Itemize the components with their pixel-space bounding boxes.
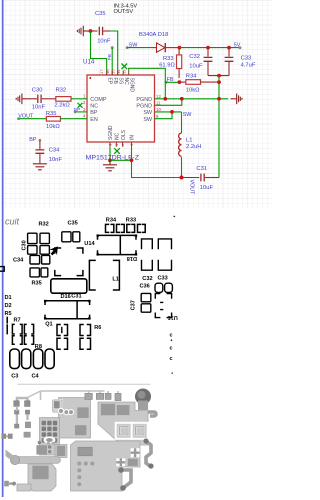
svg-text:EN: EN bbox=[90, 117, 98, 123]
svg-text:10uF: 10uF bbox=[189, 64, 203, 70]
junction C32 top bbox=[206, 46, 210, 50]
wire FB to R34 bbox=[166, 81, 179, 83]
resistor R32 bbox=[56, 97, 71, 102]
copper left edge diagonal trace bbox=[6, 450, 15, 463]
svg-text:C3: C3 bbox=[11, 373, 18, 379]
svg-text:OLS: OLS bbox=[121, 129, 127, 140]
svg-text:C32: C32 bbox=[189, 54, 200, 60]
svg-text:COMP: COMP bbox=[90, 97, 107, 103]
ground at C34 bbox=[33, 164, 47, 170]
wire 5V rail bbox=[179, 47, 240, 49]
capacitor C35 bbox=[91, 27, 111, 35]
schematic sheet background bbox=[4, 0, 273, 208]
wire SGND pin13 to PGND rail bbox=[129, 68, 166, 99]
footprint C30 pads bbox=[28, 233, 37, 254]
top pin names EP FB SS NC SGND bbox=[106, 78, 134, 93]
no-ERC top NC pin bbox=[122, 64, 128, 70]
footprint D18 bbox=[98, 235, 137, 254]
svg-text:NC: NC bbox=[90, 104, 98, 110]
copper pour bottom-center bbox=[71, 441, 141, 491]
footprint C35 pads bbox=[62, 232, 80, 242]
svg-text:L1: L1 bbox=[186, 137, 192, 143]
svg-text:12: 12 bbox=[156, 94, 161, 99]
svg-text:PGND: PGND bbox=[136, 104, 152, 110]
footprint R35 pads bbox=[30, 268, 48, 277]
wire SW to diode D18 bbox=[127, 47, 152, 49]
copper bottom curl trace bbox=[121, 470, 131, 488]
svg-text:Q1: Q1 bbox=[45, 321, 52, 327]
copper oval cutout bbox=[43, 436, 55, 443]
svg-text:c: c bbox=[170, 346, 173, 352]
svg-text:15: 15 bbox=[110, 69, 115, 73]
svg-text:16: 16 bbox=[105, 69, 110, 73]
copper right edge curve trace bbox=[148, 412, 156, 416]
ground (power) at C35 input bbox=[77, 26, 89, 37]
resistor R33 bbox=[178, 48, 180, 55]
junction SW bbox=[170, 110, 174, 114]
svg-text:SW: SW bbox=[143, 117, 153, 123]
svg-text:D16: D16 bbox=[61, 294, 71, 300]
svg-text:11: 11 bbox=[156, 100, 161, 105]
svg-text:NC: NC bbox=[123, 78, 129, 86]
svg-text:2.2uH: 2.2uH bbox=[186, 144, 201, 150]
copper features on bottom pour bbox=[78, 447, 92, 456]
copper big central pour bbox=[98, 402, 148, 445]
svg-text:10: 10 bbox=[156, 107, 161, 112]
copper pour IC region bbox=[40, 418, 60, 456]
no-ERC pin2 bbox=[78, 103, 83, 108]
capacitor C31 bbox=[182, 174, 220, 182]
copper pour column left-center bbox=[59, 398, 91, 439]
power node 5V bbox=[239, 46, 242, 49]
node SW (top) bbox=[126, 46, 129, 49]
ground below U14 bbox=[103, 160, 117, 171]
svg-text:R34: R34 bbox=[186, 74, 197, 80]
svg-text:R35: R35 bbox=[46, 111, 57, 117]
footprint C32 pads bbox=[142, 239, 153, 270]
junction PGND x165 bbox=[163, 97, 167, 101]
svg-text:13: 13 bbox=[121, 69, 126, 73]
bottom pin names SGND NC OLS IN bbox=[108, 125, 136, 140]
svg-text:C30: C30 bbox=[32, 88, 43, 94]
ground (power) right of PGND rail bbox=[231, 94, 242, 105]
svg-text:VOUT: VOUT bbox=[189, 180, 195, 196]
wire caps bottom rail bbox=[208, 75, 229, 77]
svg-text:D2: D2 bbox=[5, 303, 12, 309]
svg-text:C31: C31 bbox=[196, 166, 207, 172]
svg-text:C33: C33 bbox=[158, 275, 168, 281]
svg-text:C34: C34 bbox=[13, 257, 24, 263]
net label VOUT (left) bbox=[17, 117, 20, 120]
junction diode/R33 bbox=[178, 46, 182, 50]
wire C35 junction to U14 pin17 (staircase) bbox=[91, 31, 107, 75]
ground at C30 bbox=[16, 94, 35, 105]
node FB (top) bbox=[111, 46, 114, 49]
junction R34/vertical bbox=[217, 80, 221, 84]
svg-text:U14: U14 bbox=[83, 58, 95, 65]
copper long capsule trace bbox=[12, 457, 61, 464]
resistor R34 bbox=[179, 81, 185, 83]
copper top trace row bbox=[41, 390, 105, 392]
footprint R7/R8 pads bbox=[12, 324, 33, 344]
svg-text:OUT:5V: OUT:5V bbox=[114, 9, 134, 15]
footprint C36 pads bbox=[155, 283, 172, 292]
svg-text:5V: 5V bbox=[234, 42, 241, 48]
svg-text:10kΩ: 10kΩ bbox=[46, 124, 60, 130]
copper IC pad grid bbox=[42, 421, 58, 443]
svg-text:R5: R5 bbox=[5, 311, 12, 317]
footprint D16 bbox=[51, 279, 87, 293]
wire C35 out to U14 pin15 bbox=[110, 31, 117, 75]
svg-text:FB: FB bbox=[107, 54, 112, 60]
svg-text:SW: SW bbox=[143, 110, 153, 116]
capacitor C34 bbox=[36, 140, 45, 163]
svg-text:SS: SS bbox=[117, 78, 123, 85]
svg-text:10nF: 10nF bbox=[49, 157, 63, 163]
junction PGND x181.8 bbox=[180, 97, 184, 101]
node FB (left) bbox=[165, 81, 168, 84]
svg-text:C34: C34 bbox=[49, 148, 60, 154]
cursor arrow bbox=[50, 246, 58, 255]
svg-text:L1: L1 bbox=[112, 277, 119, 283]
svg-text:7: 7 bbox=[121, 144, 126, 146]
copper dark circle (mounting hole) bbox=[135, 389, 151, 405]
wire SGND pin5 down bbox=[109, 147, 111, 161]
sheet left border (blue) bbox=[2, 0, 4, 497]
svg-text:PGND: PGND bbox=[136, 97, 152, 103]
svg-text:R35: R35 bbox=[32, 281, 42, 287]
capacitor C33 bbox=[225, 48, 234, 76]
svg-text:BP: BP bbox=[74, 107, 80, 112]
footprint C37 pads bbox=[141, 293, 151, 312]
wire pin5 junction to IN riser bbox=[110, 159, 132, 161]
svg-text:C32: C32 bbox=[142, 276, 152, 282]
junction PGND x219 bbox=[217, 97, 221, 101]
svg-text:C35: C35 bbox=[95, 11, 106, 17]
svg-text:10nF: 10nF bbox=[32, 105, 46, 111]
svg-text:5: 5 bbox=[108, 144, 113, 146]
copper IC area small circles bbox=[47, 442, 50, 445]
svg-text:10kΩ: 10kΩ bbox=[186, 88, 200, 94]
copper left edge dumbbell bbox=[3, 435, 11, 438]
net label BP / wire bbox=[74, 111, 77, 114]
footprint Q1 pads bbox=[57, 325, 91, 350]
copper top-left arch trace bbox=[17, 398, 28, 403]
footprint R32 pads bbox=[40, 233, 49, 254]
junction IN riser bbox=[130, 158, 134, 162]
wire PGND pin11 riser bbox=[155, 99, 182, 106]
copper S trace right bbox=[146, 441, 151, 467]
copper small left bottom pads bbox=[4, 481, 9, 487]
resistor R35 bbox=[46, 117, 60, 122]
left edge pad mark bbox=[0, 267, 4, 272]
pin1 mark column bbox=[170, 333, 173, 363]
svg-text:2.2kΩ: 2.2kΩ bbox=[54, 103, 70, 109]
footprint C4 pads bbox=[33, 349, 54, 369]
svg-text:C33: C33 bbox=[241, 55, 252, 61]
svg-text:SGND: SGND bbox=[108, 125, 114, 140]
copper ring pads bbox=[58, 408, 63, 413]
svg-text:B340A D18: B340A D18 bbox=[139, 32, 168, 38]
no-ERC bottom pin bbox=[114, 148, 120, 154]
svg-text:R33: R33 bbox=[126, 218, 136, 224]
svg-text:6: 6 bbox=[114, 144, 119, 146]
section separator bbox=[18, 383, 150, 385]
copper crosshair pads bbox=[116, 448, 139, 466]
copper pad cluster top-middle bbox=[53, 400, 63, 412]
svg-text:NC: NC bbox=[115, 132, 121, 140]
junction C33 top bbox=[227, 46, 231, 50]
svg-text:10nF: 10nF bbox=[97, 38, 111, 44]
footprint R33 pads bbox=[127, 224, 145, 232]
copper pour bottom-left bbox=[28, 464, 56, 491]
svg-text:R33: R33 bbox=[163, 56, 174, 62]
bottom pins 5 6 7 8 stubs bbox=[110, 142, 132, 147]
svg-text:SW: SW bbox=[183, 112, 193, 118]
copper dark rects central bbox=[101, 404, 115, 416]
svg-text:R6: R6 bbox=[94, 325, 101, 331]
capacitor C30 bbox=[36, 95, 56, 103]
svg-text:R32: R32 bbox=[56, 88, 67, 94]
wire IN pin8 to VOUT row bbox=[132, 147, 182, 178]
svg-text:D1: D1 bbox=[5, 295, 12, 301]
junction R33/R34/FB bbox=[178, 80, 182, 84]
footprint C33 pads bbox=[158, 239, 171, 270]
wire FB to U14 pin16 bbox=[111, 48, 113, 75]
silk dot bbox=[174, 216, 176, 217]
junction at C35 input bbox=[89, 29, 93, 33]
small mark bbox=[172, 373, 173, 374]
svg-text:R7: R7 bbox=[14, 317, 21, 323]
wire vertical 5V-return x219 bbox=[218, 76, 220, 178]
footprint U15 brackets bbox=[155, 294, 171, 318]
wire VOUT to R35 bbox=[19, 118, 47, 120]
copper spectacles cutouts bbox=[116, 423, 148, 439]
svg-text:4.7uF: 4.7uF bbox=[241, 62, 256, 68]
svg-text:EP: EP bbox=[106, 78, 112, 85]
junction VOUT node bbox=[180, 176, 184, 180]
diode D18 B340A bbox=[153, 43, 180, 52]
svg-text:C36: C36 bbox=[140, 284, 150, 290]
footprint R34 pads bbox=[106, 224, 125, 232]
svg-text:D18: D18 bbox=[127, 255, 137, 261]
net label BP at C34 bbox=[39, 139, 42, 142]
footprint L1 brackets bbox=[89, 260, 119, 290]
svg-text:•: • bbox=[171, 338, 173, 344]
copper pour tongue with dark pad bbox=[55, 445, 67, 458]
copper white cutout with pad bbox=[52, 399, 63, 413]
svg-text:C4: C4 bbox=[32, 373, 40, 379]
footprint C34 pads bbox=[30, 255, 50, 264]
junction caps rail bbox=[217, 74, 221, 78]
svg-text:SGND: SGND bbox=[128, 78, 134, 93]
copper vertical dumbbell traces bbox=[16, 412, 18, 426]
svg-text:BP: BP bbox=[29, 137, 37, 143]
svg-text:cuit: cuit bbox=[5, 216, 20, 226]
svg-text:C30: C30 bbox=[21, 240, 27, 250]
svg-text:R34: R34 bbox=[106, 218, 117, 224]
svg-text:C35: C35 bbox=[68, 220, 78, 226]
svg-text:61.9Ω: 61.9Ω bbox=[159, 63, 175, 69]
svg-text:C31: C31 bbox=[71, 294, 81, 300]
copper via column bbox=[77, 462, 94, 487]
wire PGND rail bbox=[155, 98, 229, 100]
junction pin5/gnd bbox=[108, 158, 112, 162]
svg-text:U15: U15 bbox=[168, 314, 178, 320]
footprint U14 corner brackets bbox=[55, 248, 83, 276]
svg-text:FB: FB bbox=[112, 78, 118, 85]
svg-text:IN: IN bbox=[130, 135, 136, 140]
wire SW pins to L1 bbox=[155, 111, 182, 113]
svg-text:BP: BP bbox=[90, 110, 98, 116]
inductor L1 bbox=[181, 112, 183, 133]
svg-text:17: 17 bbox=[99, 69, 104, 73]
footprint C31 bbox=[45, 301, 90, 319]
svg-text:8: 8 bbox=[130, 144, 135, 146]
IC U14 MP1517DR-LF-Z bbox=[87, 75, 155, 142]
svg-text:R32: R32 bbox=[39, 221, 49, 227]
svg-text:U14: U14 bbox=[84, 241, 95, 247]
svg-text:c: c bbox=[170, 356, 173, 362]
copper dark rect in left pour bbox=[77, 407, 88, 418]
svg-text:C37: C37 bbox=[131, 300, 137, 310]
note IN/OUT text bbox=[114, 4, 138, 15]
left edge tick pads bbox=[6, 317, 8, 322]
capacitor C32 bbox=[204, 48, 213, 76]
top pins 17 16 15 14 13 stubs bbox=[107, 71, 129, 75]
footprint C3 pads bbox=[10, 349, 31, 369]
svg-text:10uF: 10uF bbox=[200, 185, 214, 191]
